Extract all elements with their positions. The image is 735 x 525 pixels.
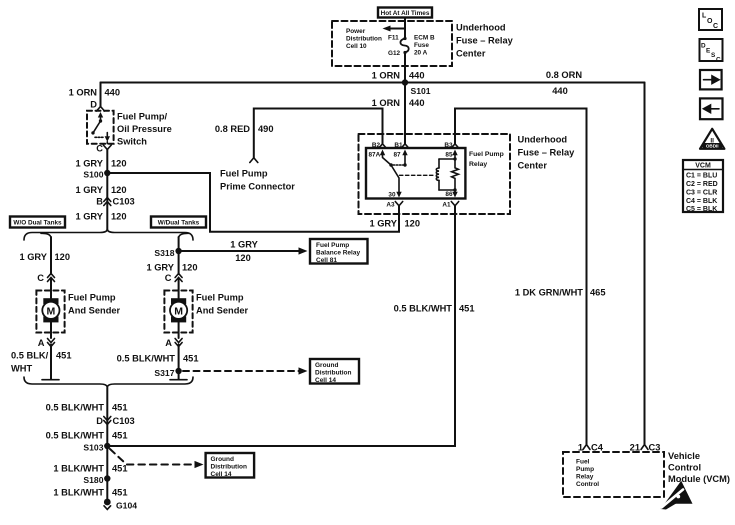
relay coil K1: [436, 157, 456, 191]
label: Fuel Pump Relay: [469, 151, 504, 168]
svg-text:C: C: [165, 273, 172, 283]
svg-text:1 GRY: 1 GRY: [19, 252, 47, 262]
svg-text:Relay: Relay: [576, 474, 594, 481]
label: 1 BLK/WHT 451 (above S180): [53, 464, 127, 474]
svg-text:120: 120: [111, 212, 127, 222]
box: left fuel pump and sender (dashed): [36, 291, 64, 333]
svg-text:451: 451: [112, 464, 128, 474]
svg-text:Fuel Pump: Fuel Pump: [220, 169, 268, 179]
svg-text:VCM: VCM: [695, 163, 711, 170]
label: 87A: [369, 152, 381, 159]
node S103: [83, 443, 110, 453]
svg-text:Vehicle: Vehicle: [668, 451, 700, 461]
svg-text:S318: S318: [154, 248, 174, 258]
svg-text:1 BLK/WHT: 1 BLK/WHT: [53, 464, 104, 474]
svg-text:0.5 BLK/WHT: 0.5 BLK/WHT: [394, 304, 453, 314]
svg-text:451: 451: [112, 403, 128, 413]
motor M symbol (right pump): [170, 298, 187, 322]
wire: battery feed vertical into fuse box: [404, 17, 406, 37]
svg-text:120: 120: [182, 263, 198, 273]
oil pressure switch internals: [91, 112, 110, 144]
label: Vehicle Control Module (VCM): [668, 451, 730, 484]
wire: S317 dashed to ground distribution (arrow): [183, 367, 308, 374]
svg-text:Center: Center: [518, 161, 548, 171]
wire: out of left pump: [50, 322, 52, 338]
svg-text:B: B: [96, 197, 103, 207]
svg-text:C2 = RED: C2 = RED: [686, 181, 718, 188]
svg-text:W/O Dual Tanks: W/O Dual Tanks: [13, 220, 62, 227]
label: Power Distribution Cell 10: [346, 28, 382, 50]
svg-text:Cell 81: Cell 81: [316, 257, 337, 264]
svg-text:Fuse – Relay: Fuse – Relay: [518, 148, 576, 158]
svg-text:Power: Power: [346, 28, 366, 35]
label: C: [37, 273, 44, 283]
svg-text:20 A: 20 A: [414, 50, 428, 57]
label: A1: [442, 202, 451, 209]
svg-text:And Sender: And Sender: [68, 306, 121, 316]
relay coil pin 85 (arrow up): [452, 150, 457, 160]
svg-text:Pump: Pump: [576, 466, 594, 473]
svg-text:440: 440: [105, 88, 121, 98]
svg-text:Cell 14: Cell 14: [211, 471, 232, 478]
relay pin A1 Y connector: [451, 202, 458, 206]
svg-text:0.8 ORN: 0.8 ORN: [546, 70, 582, 80]
svg-text:A: A: [165, 338, 172, 348]
label: Fuel Pump And Sender (right): [196, 293, 249, 316]
label: 1 DK GRN/WHT 465: [515, 288, 606, 298]
VCM pin C4 chevron: [583, 445, 590, 450]
label: ECM B Fuse 20 A: [414, 35, 435, 57]
relay pin B1 chevron: [401, 144, 408, 148]
svg-text:490: 490: [258, 124, 274, 134]
svg-text:S103: S103: [83, 443, 103, 453]
box: W/Dual Tanks tag: [151, 217, 206, 228]
svg-text:87A: 87A: [369, 152, 381, 159]
wire: main horizontal rail through S101: [101, 82, 645, 84]
label: 0.5 BLK/WHT 451 (above C103): [46, 403, 128, 413]
fuse F11 ECM B 20A symbol: [400, 37, 408, 54]
label: Fuel Pump Prime Connector: [220, 169, 295, 192]
fuel pump prime connector chevron: [250, 158, 258, 163]
svg-text:1 BLK/WHT: 1 BLK/WHT: [53, 488, 104, 498]
wire: fuse output down to S101: [404, 53, 406, 83]
icon: forward arrow box: [700, 70, 722, 89]
svg-text:1 ORN: 1 ORN: [372, 98, 401, 108]
pin C (oil pressure switch) Y connector: [103, 145, 111, 150]
svg-text:Control: Control: [668, 463, 701, 473]
label: 30: [388, 192, 396, 199]
svg-text:Underhood: Underhood: [456, 23, 506, 33]
svg-text:Oil Pressure: Oil Pressure: [117, 124, 172, 134]
svg-text:Fuse – Relay: Fuse – Relay: [456, 36, 514, 46]
wire: left tank branch 1 GRY 120 down to pump: [50, 237, 52, 274]
wire: S103 right to relay pin A1 wire: [107, 206, 455, 446]
node S101: [402, 79, 431, 96]
svg-text:1 GRY: 1 GRY: [75, 159, 103, 169]
svg-text:C1 = BLU: C1 = BLU: [686, 173, 717, 180]
box: vehicle control module (dashed): [563, 452, 664, 497]
label: A: [165, 338, 172, 348]
svg-text:Ground: Ground: [315, 362, 338, 369]
svg-text:Distribution: Distribution: [211, 464, 247, 471]
wire: 1 GRY 120 from switch C down to S100: [106, 150, 108, 231]
relay coil resistor: [452, 159, 459, 190]
svg-text:1 ORN: 1 ORN: [372, 71, 401, 81]
svg-text:440: 440: [409, 98, 425, 108]
label: 21 C3: [630, 443, 661, 453]
svg-text:W/Dual Tanks: W/Dual Tanks: [158, 220, 200, 227]
svg-text:C5 = BLK: C5 = BLK: [686, 206, 717, 213]
label: 0.8 ORN 440 (right rail): [546, 70, 582, 96]
table: VCM connector colors: [683, 160, 723, 213]
wire: S103 dashed to ground distribution (arrow): [110, 449, 204, 468]
svg-text:465: 465: [590, 288, 606, 298]
relay pin B2 chevron: [379, 144, 386, 148]
icon: DESC box: [700, 39, 723, 64]
label: 0.5 BLK/ WHT 451 (left): [11, 351, 72, 374]
label: 1 GRY 120 (right branch): [146, 263, 197, 273]
svg-text:F11: F11: [388, 35, 399, 42]
connector C103 pin D (double chevron down): [104, 417, 111, 425]
wire: into left pump: [50, 279, 52, 298]
svg-text:C3 = CLR: C3 = CLR: [686, 190, 717, 197]
label: B C103: [96, 197, 134, 207]
node S317: [154, 368, 181, 378]
svg-text:Fuel Pump: Fuel Pump: [196, 293, 244, 303]
svg-text:M: M: [47, 305, 56, 317]
relay U1: fuel pump relay box: [366, 148, 465, 199]
svg-text:G104: G104: [116, 501, 137, 511]
svg-text:Balance Relay: Balance Relay: [316, 250, 360, 257]
label: Underhood Fuse-Relay Center (relay): [518, 135, 576, 171]
svg-text:120: 120: [111, 185, 127, 195]
wire: S100 right, down, right to relay pin A3: [107, 173, 399, 232]
svg-text:Relay: Relay: [469, 161, 487, 168]
svg-text:1 GRY: 1 GRY: [146, 263, 174, 273]
svg-text:440: 440: [409, 71, 425, 81]
label: 1 C4: [578, 443, 604, 453]
label: 0.5 BLK/WHT 451 (above S103): [46, 431, 128, 441]
label: A: [38, 338, 45, 348]
wire: S101 down to relay pin B1: [404, 83, 406, 144]
relay armature link (dashed): [400, 174, 435, 176]
box: Fuel Pump Balance Relay Cell 81: [310, 239, 368, 264]
svg-text:C: C: [713, 23, 718, 30]
svg-text:120: 120: [235, 253, 251, 263]
label: F11: [388, 35, 399, 42]
label: D C103: [96, 416, 134, 426]
arrow: feed to power distribution (left arrow): [383, 26, 406, 32]
label: 1 BLK/WHT 451 (below S180): [53, 488, 127, 498]
svg-text:Center: Center: [456, 49, 486, 59]
label: C: [165, 273, 172, 283]
ground G104: [104, 499, 137, 511]
svg-text:Fuel Pump: Fuel Pump: [68, 293, 116, 303]
box: right fuel pump and sender (dashed): [164, 291, 192, 333]
label: 1 GRY 120 (left branch): [19, 252, 70, 262]
svg-text:451: 451: [112, 431, 128, 441]
icon: back arrow box: [700, 98, 723, 119]
label: G12: [388, 50, 401, 57]
svg-text:1 ORN: 1 ORN: [69, 88, 98, 98]
label: Fuel Pump/ Oil Pressure Switch: [117, 112, 172, 147]
svg-text:451: 451: [56, 351, 72, 361]
label: 1 ORN 440 (below S101): [372, 98, 425, 108]
svg-text:OBDII: OBDII: [706, 144, 719, 149]
pin C right pump (double chevron): [175, 274, 182, 282]
wire: left branch 0.5 BLK/WHT down to merge: [50, 345, 52, 380]
svg-text:B1: B1: [394, 142, 403, 149]
label: 86: [445, 191, 453, 198]
svg-text:S100: S100: [83, 170, 103, 180]
svg-text:451: 451: [183, 354, 199, 364]
svg-text:Fuse: Fuse: [414, 42, 429, 49]
svg-text:1 GRY: 1 GRY: [230, 240, 258, 250]
wire: relay pin B3 to VCM C4 (1 DK GRN/WHT 465): [455, 109, 587, 445]
svg-text:C: C: [96, 144, 103, 154]
VCM pin C3 chevron: [641, 445, 648, 450]
svg-text:S180: S180: [83, 475, 103, 485]
wire: out of right pump: [178, 322, 180, 338]
svg-text:C: C: [716, 57, 721, 64]
harness merge brace (bottom): [24, 377, 193, 387]
svg-text:C103: C103: [113, 197, 135, 207]
box: underhood fuse-relay center (dashed, relay): [359, 134, 511, 214]
relay coil pin 86 (arrow down): [452, 190, 457, 198]
svg-text:Switch: Switch: [117, 137, 147, 147]
svg-text:Underhood: Underhood: [518, 135, 568, 145]
pin C left pump (double chevron): [48, 274, 55, 282]
label: C: [96, 144, 103, 154]
svg-text:C: C: [37, 273, 44, 283]
harness split brace (top): [24, 230, 193, 241]
box: Hot At All Times label: [378, 8, 432, 18]
wire: 1 ORN 440 down-left to oil pressure switch pin D: [100, 83, 102, 107]
svg-text:Distribution: Distribution: [346, 36, 382, 43]
svg-text:Distribution: Distribution: [315, 370, 351, 377]
label: 85: [445, 152, 453, 159]
motor M symbol (left pump): [42, 298, 59, 322]
svg-text:Fuel Pump/: Fuel Pump/: [117, 112, 168, 122]
svg-text:451: 451: [459, 304, 475, 314]
svg-text:D: D: [90, 100, 97, 110]
label: 1 GRY 120 (relay A3 wire): [369, 219, 420, 229]
svg-text:1 GRY: 1 GRY: [75, 212, 103, 222]
pin A right pump (double chevron down): [175, 339, 182, 347]
svg-text:86: 86: [445, 191, 453, 198]
svg-text:G12: G12: [388, 50, 401, 57]
label: Fuel Pump And Sender (left): [68, 293, 121, 316]
wire: S318 to fuel pump balance relay (arrow): [179, 247, 308, 254]
svg-text:1 GRY: 1 GRY: [369, 219, 397, 229]
svg-text:B2: B2: [372, 142, 381, 149]
svg-text:120: 120: [111, 159, 127, 169]
wire: fuel pump prime connector branch from relay pin B2: [254, 109, 383, 158]
label: 1 GRY 120 (above tank split): [75, 212, 126, 222]
label: B3: [444, 142, 453, 149]
svg-text:30: 30: [388, 192, 396, 199]
label: 0.5 BLK/WHT 451 (right branch): [117, 354, 199, 364]
wire: merged 0.5 BLK/WHT trunk down to S103: [106, 388, 108, 503]
svg-text:0.5 BLK/WHT: 0.5 BLK/WHT: [46, 431, 105, 441]
node S100: [83, 170, 110, 180]
label: B2: [372, 142, 381, 149]
icon: OBD II warning triangle: [700, 129, 724, 149]
svg-text:Fuel: Fuel: [576, 459, 590, 466]
svg-text:0.5 BLK/WHT: 0.5 BLK/WHT: [117, 354, 176, 364]
svg-text:Module (VCM): Module (VCM): [668, 474, 730, 484]
label: 1 GRY 120 (balance relay wire): [230, 240, 258, 264]
svg-text:Prime Connector: Prime Connector: [220, 182, 295, 192]
label: B1: [394, 142, 403, 149]
label: A3: [386, 202, 395, 209]
relay contact 87A (arrow up): [380, 150, 393, 167]
box: Ground Distribution Cell 14 (bottom): [206, 453, 255, 478]
connector C103 pin B (double chevron): [104, 198, 111, 206]
svg-text:0.5 BLK/: 0.5 BLK/: [11, 351, 49, 361]
svg-text:A1: A1: [442, 202, 451, 209]
relay pin A3 Y connector: [395, 202, 402, 206]
box: fuel pump / oil pressure switch (dashed): [87, 111, 114, 144]
svg-text:Cell 14: Cell 14: [315, 377, 336, 384]
ESD warning symbol: [661, 481, 693, 510]
label: D: [90, 100, 97, 110]
svg-text:S101: S101: [411, 86, 431, 96]
svg-text:S317: S317: [154, 368, 174, 378]
label: 1 ORN 440 (above S101): [372, 71, 425, 81]
label: 87: [394, 152, 402, 159]
svg-text:Control: Control: [576, 481, 599, 488]
label: 0.5 BLK/WHT 451 (relay A1 wire): [394, 304, 475, 314]
svg-text:A: A: [38, 338, 45, 348]
label: 1 GRY 120 (above S100): [75, 159, 126, 169]
svg-text:M: M: [174, 305, 183, 317]
svg-text:451: 451: [112, 488, 128, 498]
svg-text:Ground: Ground: [211, 456, 234, 463]
svg-text:A3: A3: [386, 202, 395, 209]
label: 1 ORN 440 (left branch): [69, 88, 120, 98]
wire: right tank branch down to S318: [178, 237, 180, 274]
svg-text:87: 87: [394, 152, 402, 159]
pin A left pump (double chevron down): [48, 339, 55, 347]
svg-text:1 GRY: 1 GRY: [75, 185, 103, 195]
label: 1 GRY 120 (below S100): [75, 185, 126, 195]
node S318: [154, 248, 181, 258]
svg-text:0.5 BLK/WHT: 0.5 BLK/WHT: [46, 403, 105, 413]
svg-text:ECM B: ECM B: [414, 35, 435, 42]
label: Fuel Pump Relay Control: [576, 459, 599, 489]
node S180: [83, 475, 110, 485]
wire: right branch 0.5 BLK/WHT down to merge: [178, 345, 180, 380]
svg-text:B3: B3: [444, 142, 453, 149]
svg-text:Fuel Pump: Fuel Pump: [469, 151, 504, 158]
relay contact 87 (arrow up, dotted): [393, 150, 408, 167]
svg-text:120: 120: [405, 219, 421, 229]
relay switch blade and pin 30: [391, 165, 402, 198]
wire: into right pump: [178, 279, 180, 298]
svg-text:440: 440: [552, 86, 568, 96]
svg-text:D: D: [96, 416, 103, 426]
svg-text:WHT: WHT: [11, 364, 32, 374]
svg-text:C103: C103: [113, 416, 135, 426]
box: underhood fuse block (dashed, power distribution): [332, 21, 452, 66]
label: Underhood Fuse-Relay Center (top): [456, 23, 514, 59]
svg-text:Fuel Pump: Fuel Pump: [316, 242, 349, 249]
relay pin B3 chevron: [451, 144, 458, 148]
pin D chevron (oil pressure switch): [97, 107, 105, 112]
svg-text:C4 = BLK: C4 = BLK: [686, 198, 717, 205]
svg-text:85: 85: [445, 152, 453, 159]
wire: 0.8 ORN 440 down right side to VCM C3: [644, 83, 646, 445]
svg-text:Cell 10: Cell 10: [346, 43, 367, 50]
box: Ground Distribution Cell 14 (mid): [310, 359, 359, 384]
svg-text:120: 120: [55, 252, 71, 262]
svg-text:Hot At All Times: Hot At All Times: [381, 10, 430, 17]
svg-text:And Sender: And Sender: [196, 306, 249, 316]
svg-text:1 DK GRN/WHT: 1 DK GRN/WHT: [515, 288, 583, 298]
icon: LOC box: [699, 9, 722, 30]
box: W/O Dual Tanks tag: [10, 217, 65, 228]
label: 0.8 RED 490: [215, 124, 274, 134]
svg-text:0.8 RED: 0.8 RED: [215, 124, 250, 134]
